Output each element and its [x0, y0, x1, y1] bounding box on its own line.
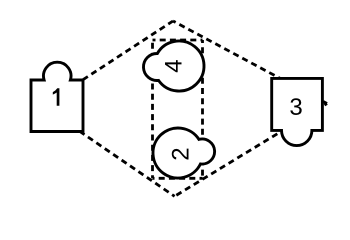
dashed rect edge left — [151, 40, 154, 178]
piece 3 (rect with bottom tab) — [272, 78, 323, 145]
dashed diamond edge bottom-left — [43, 106, 175, 196]
dashed diamond edge top-right — [173, 21, 327, 104]
dashed rect edge bottom — [153, 177, 203, 180]
label 1 — [53, 88, 60, 105]
svg-text:2: 2 — [168, 147, 195, 160]
dashed rect edge top — [153, 39, 203, 42]
piece 2 (circle with right tab) — [153, 128, 215, 178]
dashed rect edge right — [201, 40, 204, 178]
piece 4 (circle with left tab) — [143, 41, 204, 91]
svg-text:4: 4 — [160, 59, 187, 72]
dashed diamond edge bottom-right — [175, 104, 327, 197]
piece 1 (rect with top tab) — [31, 62, 83, 131]
svg-text:3: 3 — [289, 94, 302, 121]
dashed diamond edge top-left — [43, 21, 173, 106]
